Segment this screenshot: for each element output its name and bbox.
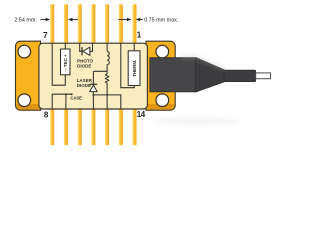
mounting hole top-left [18, 45, 31, 58]
wire pin7 to TEC minus [52, 44, 65, 86]
dimension arrow right to pin1 [119, 19, 129, 21]
svg-text:0.75 mm max.: 0.75 mm max. [144, 18, 178, 24]
wire inductor to resistor node [106, 65, 108, 74]
svg-text:- TEC +: - TEC + [63, 54, 68, 70]
node laser anode junction [92, 94, 94, 96]
pin 2 [119, 4, 123, 44]
pin 1 (top row rightmost) [133, 4, 137, 44]
node case junction [65, 93, 67, 95]
pin 13 [119, 109, 123, 146]
TEC module box [61, 49, 71, 75]
dimension arrow right to pin7 [41, 19, 47, 21]
wire thermistor top to pin1 [133, 44, 135, 51]
pin 12 [105, 109, 109, 146]
wire pin3 to inductor [106, 44, 108, 52]
laser diode D2 triangle [90, 85, 98, 92]
pin 14 (bottom row rightmost) [133, 109, 137, 146]
fiber boot [150, 58, 196, 92]
shadow under module [152, 117, 242, 125]
fiber strain-relief rod [224, 70, 256, 81]
fiber ferrule tip [256, 73, 271, 79]
pin 4 [91, 4, 95, 44]
wire pin5 to photodiode cathode [80, 44, 82, 52]
node resistor row junction [106, 94, 108, 96]
svg-text:8: 8 [44, 111, 49, 120]
photodiode D1 cathode bar [81, 47, 83, 55]
wire resistor to bottom row [106, 83, 108, 109]
pin 8 (bottom row leftmost) [50, 109, 54, 146]
dimension arrow left to pin6 [72, 19, 79, 21]
wire node to laser diode cathode [93, 71, 107, 84]
svg-text:7: 7 [43, 31, 48, 40]
pin 7 (top row leftmost) [50, 4, 54, 44]
pin 9 [64, 109, 68, 146]
svg-text:14: 14 [137, 110, 146, 119]
wire laser anode to bottom row [92, 92, 94, 109]
left flange bottom shading [17, 104, 41, 109]
svg-text:CASE: CASE [70, 96, 82, 101]
pin 6 [64, 4, 68, 44]
wire photodiode anode to pin4 [90, 44, 93, 52]
photodiode D1 triangle [83, 47, 90, 55]
pin 10 [78, 109, 82, 146]
wire TEC plus to pin6 [64, 44, 66, 50]
mounting hole bottom-left [18, 94, 31, 107]
inductor L1 [107, 51, 109, 64]
package body [39, 43, 147, 109]
wire pin2 to thermistor bottom [121, 44, 134, 88]
pin 11 [91, 109, 95, 146]
laser diode D2 cathode bar [90, 83, 98, 85]
svg-text:THERM.: THERM. [132, 60, 137, 77]
fiber boot taper [195, 58, 225, 92]
left mounting flange [16, 41, 41, 110]
wire case to pin9 [65, 94, 67, 109]
right flange bottom shading [148, 104, 174, 109]
mounting hole top-right [156, 45, 169, 58]
wire case to pin8 [52, 94, 71, 109]
resistor R1 zigzag [105, 74, 109, 83]
dimension arrow left from pin1 [139, 19, 142, 21]
pin 5 [78, 4, 82, 44]
svg-text:1: 1 [137, 31, 142, 40]
pin 3 [105, 4, 109, 44]
node case terminal [71, 93, 73, 95]
thermistor box [128, 51, 140, 86]
focus haze above fiber boot taper [182, 57, 225, 70]
svg-text:2.54 mm.: 2.54 mm. [14, 18, 36, 24]
wire bottom row to pin13 [93, 95, 120, 109]
mounting hole bottom-right [156, 94, 169, 107]
right mounting flange [146, 41, 175, 110]
svg-text:DIODE: DIODE [77, 83, 91, 88]
svg-text:DIODE: DIODE [77, 63, 91, 68]
